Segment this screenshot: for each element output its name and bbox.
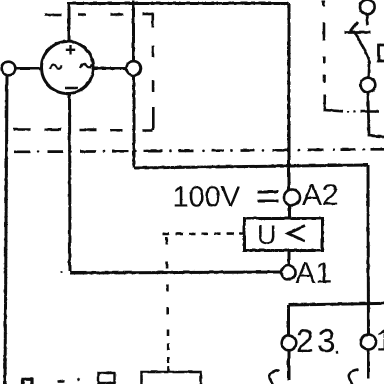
svg-text:A2: A2: [302, 179, 339, 212]
svg-text:U: U: [257, 220, 277, 250]
svg-text:1: 1: [376, 324, 384, 357]
svg-text:23: 23: [296, 323, 340, 359]
svg-text:A1: A1: [295, 257, 332, 290]
svg-text:100V: 100V: [172, 181, 240, 213]
